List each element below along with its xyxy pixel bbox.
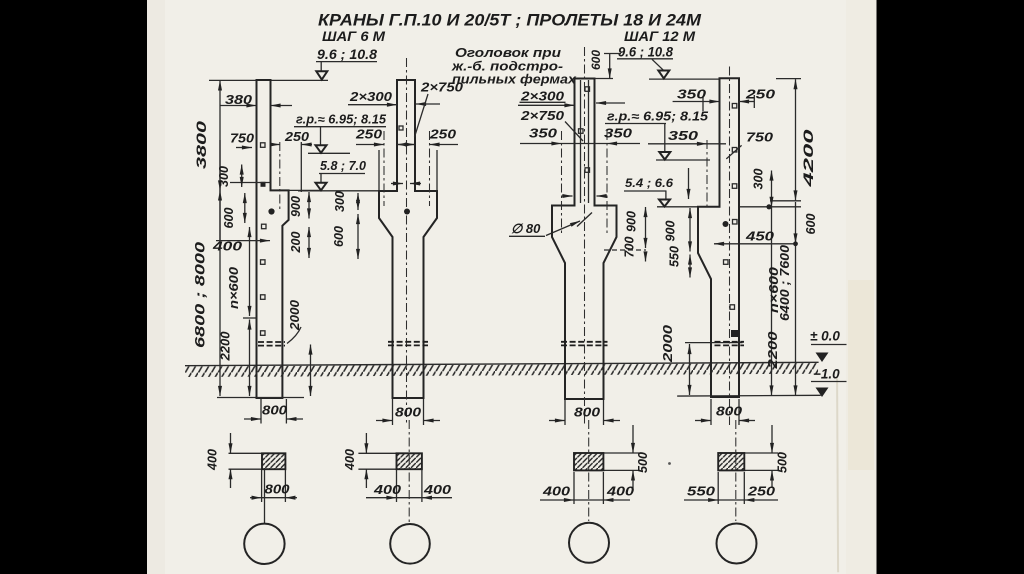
svg-text:600: 600 [332,226,346,247]
svg-text:n×600: n×600 [767,267,781,313]
svg-text:6800 ; 8000: 6800 ; 8000 [192,242,208,348]
svg-text:250: 250 [355,127,383,142]
svg-text:250: 250 [745,87,776,102]
svg-text:2000: 2000 [661,325,675,363]
svg-text:550: 550 [668,246,682,267]
svg-text:250: 250 [284,129,310,144]
svg-text:350: 350 [529,126,558,141]
svg-text:400: 400 [606,485,634,499]
svg-text:400: 400 [343,449,357,471]
svg-text:350: 350 [677,87,707,102]
svg-text:г.р.≈ 6.95; 8.15: г.р.≈ 6.95; 8.15 [296,113,387,127]
svg-text:900: 900 [289,196,303,217]
svg-text:400: 400 [423,483,451,497]
svg-text:380: 380 [225,92,253,107]
svg-text:250: 250 [747,485,775,499]
svg-text:600: 600 [804,214,818,235]
svg-text:600: 600 [589,50,603,70]
svg-text:3800: 3800 [194,120,209,169]
svg-text:4200: 4200 [801,129,816,189]
svg-text:900: 900 [625,211,639,232]
svg-text:300: 300 [333,191,347,212]
svg-text:800: 800 [262,404,287,418]
svg-text:2×300: 2×300 [520,89,565,104]
svg-text:400: 400 [206,449,220,471]
svg-text:900: 900 [664,221,678,242]
svg-text:300: 300 [752,169,766,190]
svg-text:2200: 2200 [219,331,233,361]
svg-text:2000: 2000 [288,300,302,331]
svg-text:400: 400 [373,483,401,497]
svg-text:ШАГ 6 М: ШАГ 6 М [322,29,386,44]
svg-text:800: 800 [716,405,742,419]
svg-text:350: 350 [668,128,699,143]
svg-text:500: 500 [636,452,650,473]
svg-text:800: 800 [265,483,290,497]
svg-text:2200: 2200 [766,331,780,369]
svg-text:пильных фермах: пильных фермах [452,72,577,87]
svg-text:∅ 80: ∅ 80 [511,221,541,236]
svg-text:400: 400 [542,485,570,499]
svg-text:450: 450 [745,230,774,244]
svg-text:2×750: 2×750 [420,80,464,95]
svg-text:250: 250 [429,127,457,142]
svg-text:−1.0: −1.0 [813,367,840,382]
svg-text:2×750: 2×750 [520,108,565,123]
svg-text:2×300: 2×300 [349,89,393,104]
svg-text:г.р.≈ 6.95; 8.15: г.р.≈ 6.95; 8.15 [607,110,709,124]
svg-text:550: 550 [687,485,715,499]
svg-text:600: 600 [222,208,236,229]
svg-text:800: 800 [395,406,421,420]
svg-text:КРАНЫ Г.П.10 И 20/5Т ; ПРОЛЕТ: КРАНЫ Г.П.10 И 20/5Т ; ПРОЛЕТЫ 18 И 24М [318,12,702,30]
svg-text:350: 350 [604,126,633,141]
svg-text:700: 700 [623,237,637,258]
svg-text:200: 200 [289,232,303,254]
svg-text:750: 750 [746,130,774,145]
svg-text:300: 300 [217,166,231,187]
svg-text:750: 750 [230,131,255,146]
svg-text:± 0.0: ± 0.0 [810,329,840,344]
svg-text:9.6 ; 10.8: 9.6 ; 10.8 [317,47,378,62]
svg-text:n×600: n×600 [227,267,241,309]
svg-text:800: 800 [574,406,600,420]
svg-text:9.6 ; 10.8: 9.6 ; 10.8 [618,45,673,60]
svg-text:5.4 ; 6.6: 5.4 ; 6.6 [625,176,673,190]
svg-text:500: 500 [776,452,790,473]
svg-text:5.8 ; 7.0: 5.8 ; 7.0 [320,159,366,173]
svg-text:ШАГ 12 М: ШАГ 12 М [624,29,696,44]
